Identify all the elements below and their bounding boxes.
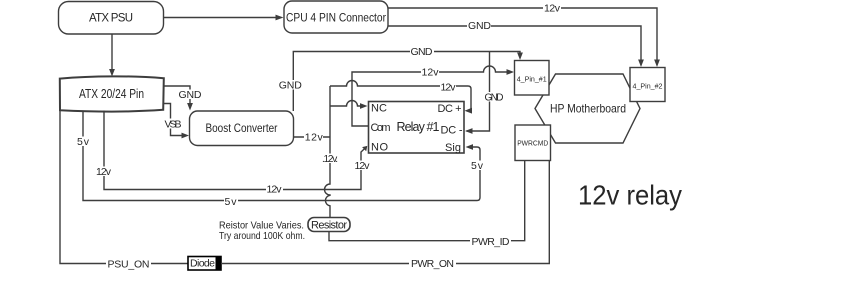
svg-text:Boost Converter: Boost Converter <box>206 121 278 135</box>
svg-text:12v relay: 12v relay <box>578 180 682 211</box>
svg-text:Try around 100K ohm.: Try around 100K ohm. <box>219 230 305 242</box>
svg-text:GND: GND <box>411 46 433 58</box>
svg-text:CPU 4 PIN Connector: CPU 4 PIN Connector <box>286 13 386 25</box>
wire GND branch to relay DC- <box>465 52 504 134</box>
svg-text:DC +: DC + <box>438 103 462 115</box>
svg-text:.12v.: .12v. <box>322 154 338 165</box>
resistor R1 <box>308 218 350 232</box>
PWRCMD connector <box>515 125 551 161</box>
svg-text:12v: 12v <box>441 82 457 94</box>
diode D1 <box>188 257 221 271</box>
svg-text:DC -: DC - <box>441 125 463 137</box>
svg-text:5v: 5v <box>471 160 484 172</box>
wire VSB ATX to Boost Converter <box>164 104 190 139</box>
wire GND ATX to Boost Converter <box>164 86 203 111</box>
svg-text:ATX 20/24 Pin: ATX 20/24 Pin <box>79 87 144 101</box>
svg-text:4_Pin_#2: 4_Pin_#2 <box>633 82 663 91</box>
svg-text:12v: 12v <box>355 160 371 172</box>
svg-text:ATX PSU: ATX PSU <box>89 13 133 25</box>
wire ATX PSU to ATX 20/24 Pin <box>109 35 115 77</box>
4_Pin_#1 connector <box>515 61 550 96</box>
wire 12v to relay NC <box>330 101 368 109</box>
svg-text:PWR_ON: PWR_ON <box>411 258 454 270</box>
wire GND net Boost corner to 4_Pin_#1 <box>278 46 523 111</box>
wire 12v Boost output <box>294 131 331 143</box>
svg-text:5v: 5v <box>77 136 90 148</box>
ATX PSU <box>59 2 164 35</box>
svg-text:4_Pin_#1: 4_Pin_#1 <box>517 75 547 84</box>
svg-text:NC: NC <box>371 102 387 114</box>
wire 12v relay Com to 4_Pin_#1 <box>352 66 514 126</box>
wire PWR_ON Diode to PWRCMD <box>221 161 549 270</box>
svg-text:Relay #1: Relay #1 <box>397 120 440 134</box>
svg-text:12v: 12v <box>96 166 112 178</box>
svg-text:PWRCMD: PWRCMD <box>517 138 549 147</box>
wire 12v vertical from Boost to Resistor <box>321 86 339 218</box>
wire 5v ATX to relay Sig <box>76 111 484 208</box>
svg-text:12v: 12v <box>305 131 324 143</box>
svg-text:Sig: Sig <box>445 142 461 154</box>
wire 12v to relay DC+ <box>330 81 472 114</box>
svg-text:12v: 12v <box>267 183 283 195</box>
wire 12v ATX to relay NO <box>95 111 371 196</box>
wire 12v CPU connector to 4_Pin_#2 <box>388 3 660 68</box>
svg-text:VSB: VSB <box>165 118 182 130</box>
wire PWR_ID Resistor to PWRCMD <box>329 161 525 248</box>
svg-text:HP Motherboard: HP Motherboard <box>550 102 626 116</box>
wire GND CPU connector to 4_Pin_#2 <box>388 20 644 67</box>
svg-text:GND: GND <box>485 93 504 104</box>
svg-text:GND: GND <box>468 20 491 32</box>
title 12v relay <box>578 180 682 211</box>
svg-text:12v: 12v <box>422 67 440 79</box>
svg-text:Diode: Diode <box>190 258 215 270</box>
svg-text:Resistor: Resistor <box>311 220 347 232</box>
Boost Converter <box>190 111 294 146</box>
wire ATX PSU to CPU 4 PIN Connector <box>163 15 284 21</box>
4_Pin_#2 connector <box>630 68 665 102</box>
svg-text:PWR_ID: PWR_ID <box>472 236 510 248</box>
svg-text:12v: 12v <box>544 3 561 15</box>
relay U1 Relay #1 <box>369 102 465 155</box>
svg-text:GND: GND <box>279 79 302 91</box>
svg-text:5v: 5v <box>225 196 238 208</box>
svg-text:NO: NO <box>371 142 388 154</box>
note resistor value <box>219 219 305 242</box>
CPU 4 PIN Connector U2 <box>284 1 388 33</box>
svg-text:GND: GND <box>179 89 202 101</box>
svg-text:PSU_ON: PSU_ON <box>108 258 150 270</box>
ATX 20/24 Pin connector <box>60 76 164 111</box>
wire PSU_ON ATX to Diode <box>60 111 188 271</box>
HP Motherboard <box>535 74 640 143</box>
svg-text:Com: Com <box>371 122 391 134</box>
